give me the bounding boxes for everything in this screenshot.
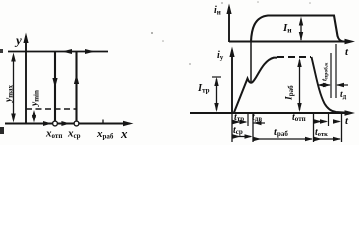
t axis arrowhead (top plot) [345,39,356,44]
x-axis [5,123,130,125]
circle at x_sr [74,121,79,126]
I_tr level tick [212,76,221,78]
i_y drop and decay tail [312,57,348,113]
svg-text:х: х [120,126,128,141]
t_dv dimension arrow (points left to tick) [254,122,266,124]
y_min dashed level line [26,108,76,110]
tick below axis at end of t_otk [341,113,343,142]
arrow right on lower branch before x_otp [43,121,52,126]
arrow right on lower branch before x_sr [61,121,70,126]
small arrow to t_otk right tick row1 [333,121,340,123]
t_rab dimension row2 [255,138,313,140]
I_n dimension arrow [300,19,302,40]
i_n axis arrowhead [226,4,231,15]
t axis of top plot [229,41,351,43]
down arrow on left vertical [52,78,57,88]
t_sr dimension row2 [234,136,251,138]
svg-text:уmax: уmax [4,84,15,103]
i_n curve: rise, flat top, drop [251,16,343,42]
y-axis [25,36,27,124]
hysteresis loop left vertical (x_otp) [54,52,56,121]
circle at x_otp [53,121,58,126]
y_max dimension line [13,56,15,119]
arrow left on top branch [62,49,72,54]
I_tr dimension arrow [216,79,218,110]
tick below axis at switch-off [313,113,315,142]
y_min dimension arrows [32,110,36,118]
y-axis arrowhead [23,33,28,44]
i_y axis arrowhead [229,47,234,58]
i_y flat dashed section [277,56,311,58]
tick below axis at end of t_tr [247,113,249,126]
t_otk dimension row2 [316,138,341,140]
vertical tick t_prob left [330,53,332,98]
svg-text:Iраб: Iраб [285,85,296,101]
x-axis arrowhead [123,121,134,126]
tick below axis at origin [231,113,233,142]
y_max top level line [8,51,108,53]
tick below axis at end of t_otp [328,113,330,126]
t_otp dimension row1 [316,121,327,123]
hysteresis loop right vertical (x_sr) [75,52,77,121]
i_n vertical axis [228,7,230,42]
i_y vertical axis [231,50,233,113]
arrow right on top branch [85,49,95,54]
svg-text:tд: tд [340,90,347,101]
tick below axis at end of t_sr [252,113,254,142]
up arrow on right vertical [74,74,79,84]
x-axis tick at x_rab [102,120,104,124]
t_tr dimension row1 [234,121,246,123]
scan specks [0,127,4,134]
svg-text:уmin: уmin [30,90,41,107]
connector from i_n rise down to lower plot [250,42,252,83]
vertical tick t_prob right / connector from top drop [335,44,337,98]
t axis of bottom plot (extends left of vertical axis) [190,112,351,114]
t axis arrowhead (bottom plot) [345,110,356,115]
i_y curve: ramp, dip, rise to flat [234,58,277,113]
t_prob dimension line with outside arrows [318,84,330,86]
svg-text:у: у [14,33,22,48]
I_rab dimension arrow [299,60,301,110]
